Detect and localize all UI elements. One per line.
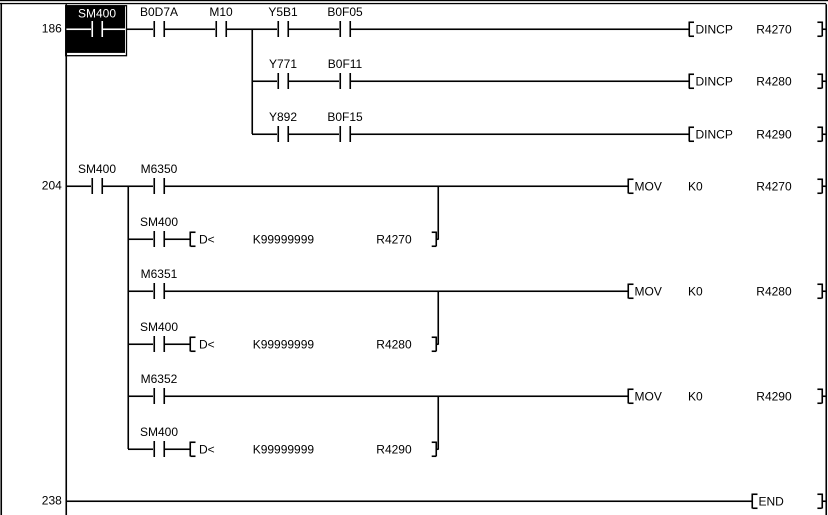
svg-text:R4290: R4290 <box>376 443 412 457</box>
svg-text:K99999999: K99999999 <box>253 233 315 247</box>
svg-text:K99999999: K99999999 <box>253 338 315 352</box>
svg-text:SM400: SM400 <box>140 320 178 334</box>
svg-text:B0F11: B0F11 <box>328 57 363 71</box>
svg-text:M6351: M6351 <box>141 267 178 281</box>
svg-text:R4270: R4270 <box>756 23 792 37</box>
svg-text:K0: K0 <box>688 285 703 299</box>
svg-text:M6352: M6352 <box>141 372 178 386</box>
svg-text:MOV: MOV <box>635 390 662 404</box>
svg-text:Y771: Y771 <box>269 57 297 71</box>
svg-text:M10: M10 <box>209 5 233 19</box>
svg-text:SM400: SM400 <box>78 6 116 20</box>
svg-text:R4270: R4270 <box>756 180 792 194</box>
svg-text:MOV: MOV <box>635 285 662 299</box>
svg-text:SM400: SM400 <box>78 162 116 176</box>
svg-text:204: 204 <box>42 179 62 193</box>
svg-text:M6350: M6350 <box>141 162 178 176</box>
svg-text:DINCP: DINCP <box>696 128 733 142</box>
svg-text:DINCP: DINCP <box>696 75 733 89</box>
svg-text:Y892: Y892 <box>269 110 297 124</box>
svg-text:B0F05: B0F05 <box>327 5 363 19</box>
svg-text:D<: D< <box>199 443 215 457</box>
svg-text:R4280: R4280 <box>756 285 792 299</box>
svg-text:D<: D< <box>199 338 215 352</box>
svg-text:MOV: MOV <box>635 180 662 194</box>
svg-text:R4280: R4280 <box>756 75 792 89</box>
svg-text:K0: K0 <box>688 180 703 194</box>
svg-text:R4270: R4270 <box>376 233 412 247</box>
svg-text:Y5B1: Y5B1 <box>268 5 298 19</box>
svg-text:B0D7A: B0D7A <box>140 5 178 19</box>
svg-text:186: 186 <box>42 22 62 36</box>
svg-text:R4290: R4290 <box>756 390 792 404</box>
svg-text:END: END <box>759 495 785 509</box>
svg-text:K99999999: K99999999 <box>253 443 315 457</box>
svg-text:SM400: SM400 <box>140 425 178 439</box>
svg-text:B0F15: B0F15 <box>327 110 363 124</box>
svg-text:R4290: R4290 <box>756 128 792 142</box>
svg-text:K0: K0 <box>688 390 703 404</box>
svg-text:DINCP: DINCP <box>696 23 733 37</box>
svg-text:R4280: R4280 <box>376 338 412 352</box>
svg-text:SM400: SM400 <box>140 215 178 229</box>
svg-text:238: 238 <box>42 494 62 508</box>
svg-text:D<: D< <box>199 233 215 247</box>
